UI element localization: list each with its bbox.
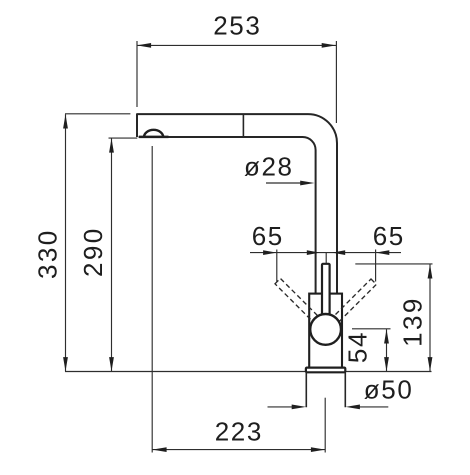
diameter 50 arrows: [268, 406, 389, 408]
svg-text:290: 290: [78, 226, 108, 277]
svg-text:ø50: ø50: [364, 375, 414, 405]
dimension 65 extension lines: [277, 250, 376, 282]
dimension 54 line: [386, 329, 388, 371]
svg-text:ø28: ø28: [244, 152, 294, 182]
body (cartridge housing): [309, 294, 342, 368]
dashed lever swung right: [331, 279, 377, 325]
spout top edge with outer bend and pipe right edge: [137, 114, 337, 294]
spray head dome: [144, 130, 163, 138]
dimension 65-65 line: [250, 252, 401, 254]
spout bottom edge with inner bend and pipe left edge: [139, 137, 316, 294]
dimension 54 top extension: [352, 328, 391, 330]
svg-text:253: 253: [213, 11, 261, 41]
dimension 290 top extension: [109, 137, 138, 139]
dimension 223 line: [152, 449, 325, 451]
centerline tick: [325, 253, 327, 264]
dimension 330 top extension: [65, 113, 130, 115]
ball joint circle: [310, 314, 341, 345]
dimension 330 line: [65, 114, 67, 371]
svg-text:65: 65: [252, 221, 284, 251]
svg-text:54: 54: [343, 331, 373, 363]
lever handle (upright): [322, 264, 330, 319]
dashed lever swung left: [275, 278, 321, 324]
dimension 290 line: [111, 138, 113, 371]
svg-text:223: 223: [215, 417, 263, 447]
svg-text:65: 65: [373, 221, 405, 251]
diameter 28 leader arrow: [266, 182, 306, 184]
base flange: [306, 368, 345, 373]
dimension 139 line: [429, 264, 431, 371]
dimension 253 line: [137, 44, 336, 46]
dimension 139 top extension: [355, 263, 432, 265]
faucet axis extension below shank: [324, 398, 326, 453]
spray outlet axis extension line: [151, 146, 153, 453]
svg-text:139: 139: [398, 296, 428, 347]
deck / countertop line: [65, 371, 432, 373]
spout joint line: [242, 114, 244, 137]
shank below deck: [306, 372, 345, 407]
dimension 253 extension lines: [137, 41, 336, 123]
svg-text:330: 330: [33, 228, 63, 279]
